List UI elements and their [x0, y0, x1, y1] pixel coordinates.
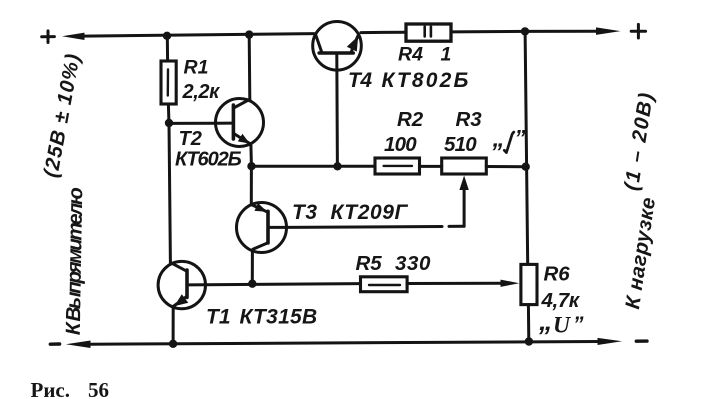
node output top: [521, 27, 529, 35]
wire bottom rail: [89, 342, 599, 345]
svg-text:R5: R5: [356, 252, 383, 275]
wire T3 collector drop: [251, 251, 254, 284]
svg-text:R6: R6: [544, 262, 571, 285]
node bottom right: [525, 337, 533, 345]
svg-text:56: 56: [88, 378, 109, 399]
svg-text:КТ602Б: КТ602Б: [175, 148, 242, 170]
power arrow right bottom: [598, 338, 623, 345]
svg-text:Т1: Т1: [206, 306, 231, 329]
wire R5 to R6 wiper: [407, 282, 502, 285]
power arrow left top: [62, 33, 85, 40]
svg-text:(1 – 20В): (1 – 20В): [620, 90, 658, 192]
wire T1 emitter drop: [172, 307, 175, 344]
power arrow right top: [596, 27, 621, 35]
svg-text:510: 510: [444, 133, 477, 156]
minus left terminal: [50, 342, 59, 346]
svg-text:2,2к: 2,2к: [182, 81, 221, 103]
svg-text:Т4: Т4: [348, 69, 372, 92]
svg-text:(25В ± 10%): (25В ± 10%): [39, 51, 85, 179]
resistor R4 1: [406, 24, 451, 41]
wire right rail: [525, 31, 528, 264]
svg-text:”: ”: [573, 313, 584, 336]
wire middle T2 to R2: [252, 165, 376, 168]
svg-text:КТ802Б: КТ802Б: [382, 69, 471, 92]
wire T2 collector riser: [248, 35, 252, 99]
svg-text:U: U: [553, 313, 571, 339]
power arrow left bottom: [66, 341, 91, 349]
node R1-T2-T1: [165, 119, 173, 127]
R3 wiper arrow: [463, 188, 466, 226]
svg-text:К нагрузке: К нагрузке: [621, 196, 660, 311]
svg-text:Т3: Т3: [292, 201, 318, 224]
svg-text:КТ315В: КТ315В: [240, 306, 318, 329]
wire R2 to R3: [420, 165, 442, 168]
wire T3 emitter riser: [250, 167, 253, 205]
wire T1 base to R5: [206, 284, 361, 285]
minus right terminal: [636, 339, 647, 343]
svg-text:Рис.: Рис.: [31, 378, 71, 399]
svg-text:Т2: Т2: [179, 128, 202, 150]
svg-text:R3: R3: [456, 108, 483, 131]
wire T1 collector riser: [169, 123, 170, 262]
svg-text:100: 100: [384, 133, 417, 156]
svg-text:R1: R1: [184, 56, 209, 78]
resistor R3 510 potentiometer: [442, 158, 487, 174]
svg-text:КТ209Г: КТ209Г: [331, 201, 409, 224]
wire T2 base: [169, 122, 216, 125]
svg-text:R2: R2: [397, 108, 424, 131]
node middle-right: [522, 163, 530, 171]
node top rail R1: [163, 32, 171, 40]
resistor R2 100: [375, 158, 420, 174]
transistor T1 KT315V: [158, 261, 205, 308]
R6 wiper arrow: [501, 280, 520, 287]
wire T3 base: [287, 225, 443, 229]
svg-text:”: ”: [515, 126, 526, 151]
transistor T2 KT602B: [216, 99, 264, 147]
plus left terminal: [42, 31, 55, 43]
svg-text:К Выпрямителю: К Выпрямителю: [62, 187, 88, 336]
resistor R6 4,7k potentiometer: [521, 264, 537, 304]
node bottom left: [169, 340, 177, 348]
resistor R5 330: [361, 277, 408, 292]
wire R3 to right rail: [486, 165, 525, 168]
svg-text:„: „: [538, 306, 553, 336]
resistor R1 2,2k: [161, 61, 176, 104]
svg-text:330: 330: [395, 252, 431, 275]
wire R1 bottom lead: [167, 104, 171, 122]
plus right terminal: [631, 24, 645, 38]
wire T4 base lead: [335, 55, 339, 166]
wire R1 top lead: [166, 36, 169, 61]
svg-text:1: 1: [441, 44, 452, 66]
wire to plus right: [525, 30, 598, 33]
svg-text:R4: R4: [398, 44, 423, 66]
node top rail T2: [245, 30, 253, 38]
node T1 base / T3 collector: [248, 280, 256, 288]
svg-text:„: „: [492, 126, 505, 153]
wire R6 bottom lead: [527, 305, 530, 342]
transistor T3 KT209G: [237, 203, 287, 253]
wire R4 to output node: [451, 30, 525, 34]
wire top rail T4 to R4: [361, 31, 406, 34]
wire T2 emitter drop: [249, 144, 253, 166]
wire top rail left: [83, 34, 314, 37]
node T2/T3 emitter: [247, 162, 255, 170]
transistor T4 KT802B: [313, 22, 362, 71]
node T4 base junction: [333, 162, 341, 170]
